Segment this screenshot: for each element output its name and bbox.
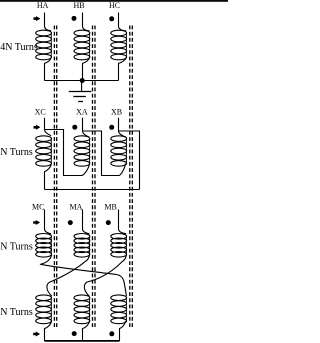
wire XA tee to XB winding bottom — [83, 131, 120, 176]
phase arrow marker HA — [34, 16, 41, 21]
wire MC upper bottom to MB lower top (long diagonal) — [41, 255, 127, 297]
junction dot at HB/neutral — [80, 78, 85, 83]
svg-text:HB: HB — [73, 1, 84, 10]
junction dot MA bottom — [72, 331, 77, 336]
winding MB lower (N turns) — [111, 295, 127, 324]
wire XA winding bottom lead — [82, 164, 89, 176]
wire XA terminal lead — [83, 118, 90, 137]
frame top border line — [0, 0, 228, 2]
svg-text:N Turns: N Turns — [0, 242, 33, 253]
wire MC terminal lead — [45, 210, 52, 234]
wire XB tee down — [119, 131, 140, 190]
winding XA (N turns) — [74, 136, 90, 166]
wire HC terminal lead — [119, 13, 127, 31]
wire M bottom bus — [45, 340, 120, 342]
phase arrow marker M bottom — [33, 332, 40, 337]
svg-text:4N Turns: 4N Turns — [0, 42, 38, 53]
svg-text:XA: XA — [76, 108, 88, 117]
winding HB (4N turns) — [74, 30, 90, 60]
svg-text:HC: HC — [109, 1, 120, 10]
winding MA lower (N turns) — [74, 295, 90, 324]
wire MA terminal lead — [83, 210, 90, 234]
winding MB upper (N turns) — [111, 234, 127, 258]
phase arrow marker XC — [34, 125, 41, 130]
polarity dot HC — [109, 16, 114, 21]
wire MA lower bottom lead — [83, 321, 90, 341]
winding XB (N turns) — [111, 136, 127, 166]
polarity dot MA — [68, 220, 73, 225]
junction dot MB bottom — [109, 331, 114, 336]
wire XC tee to XA winding bottom — [45, 130, 83, 176]
wire MB lower bottom lead — [120, 321, 126, 341]
svg-text:MB: MB — [104, 202, 116, 211]
wire XC winding bottom lead — [45, 164, 52, 190]
svg-text:N Turns: N Turns — [0, 147, 33, 158]
core leg B (dashed pair) — [93, 26, 96, 328]
wire HA bottom lead — [45, 57, 52, 80]
winding MA upper (N turns) — [74, 234, 90, 258]
svg-text:MA: MA — [69, 202, 82, 211]
wire X bottom rail (XC bottom to XB tee) — [45, 189, 140, 191]
phase arrow marker MC — [33, 220, 40, 225]
polarity dot XB — [109, 125, 114, 130]
polarity dot MB — [106, 220, 111, 225]
wire MB upper bottom to MA lower top (diagonal) — [84, 255, 126, 297]
wire XB terminal lead — [119, 118, 127, 137]
polarity dot XA — [72, 125, 77, 130]
wire MA upper bottom to MC lower top (diagonal) — [47, 255, 90, 297]
core leg A (dashed pair) — [54, 26, 56, 328]
wire HB bottom lead — [83, 57, 90, 80]
svg-text:HA: HA — [37, 1, 49, 10]
winding HA (4N turns) — [36, 30, 52, 60]
polarity dot HB — [72, 16, 77, 21]
wire MB terminal lead — [119, 210, 127, 234]
wire HC bottom lead — [119, 57, 127, 80]
core leg C (dashed pair) — [130, 26, 133, 328]
svg-text:XB: XB — [111, 108, 122, 117]
winding HC (4N turns) — [111, 30, 127, 60]
svg-text:MC: MC — [32, 202, 44, 211]
winding XC (N turns) — [36, 136, 52, 166]
svg-text:XC: XC — [35, 108, 46, 117]
winding MC upper (N turns) — [36, 234, 52, 258]
wire XC terminal lead — [45, 118, 52, 136]
winding MC lower (N turns) — [36, 295, 52, 324]
svg-text:N Turns: N Turns — [0, 307, 33, 318]
ground — [69, 81, 92, 102]
wire neutral bus (H winding commons) — [45, 80, 119, 82]
wire MC lower bottom lead — [45, 321, 52, 341]
wire HB terminal lead — [83, 13, 90, 31]
wire XB winding bottom lead — [120, 164, 126, 176]
wire HA terminal lead — [45, 13, 52, 31]
